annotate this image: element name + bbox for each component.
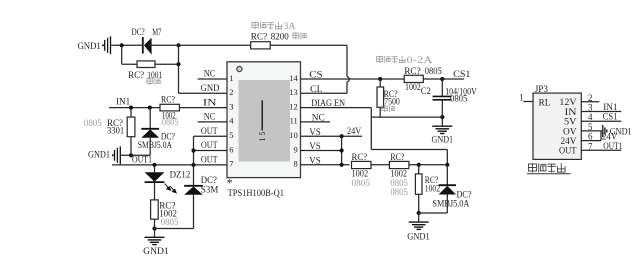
node junction OUT pin6	[191, 148, 195, 152]
label OUT pin7	[201, 156, 218, 166]
svg-text:GND1: GND1	[143, 247, 169, 257]
label RC? (R3301)	[107, 119, 123, 129]
diode DC? S3M (freewheel)	[184, 186, 203, 195]
wire OUT1 rail	[112, 164, 227, 166]
wire IN1 to R1002	[109, 107, 160, 109]
JP3 pin 2 stub	[581, 101, 599, 103]
wire DIAG EN drop to 24V row	[446, 150, 448, 165]
svg-text:0-2A: 0-2A	[407, 56, 433, 66]
wire vertical x178 to IC GND pin	[178, 45, 180, 93]
diode DZ12 zener LED	[145, 172, 165, 182]
svg-text:12: 12	[289, 101, 298, 111]
label 1002 (IN series)	[162, 111, 176, 121]
label RC? (row b)	[390, 153, 404, 163]
label RC? 8200 柱状	[251, 32, 307, 42]
node junction OUT1/S3M	[191, 163, 195, 167]
resistor vertical lead bottom	[418, 194, 420, 213]
node junction IN1/SMBJ	[148, 106, 152, 110]
label 0805 (row b)	[390, 179, 408, 189]
wire OUT pins vertical	[193, 136, 195, 186]
label DC? (SMBJ input)	[161, 133, 175, 143]
resistor RC? 3301 lead bottom	[130, 137, 132, 156]
JP3 pin 5 stub	[581, 130, 602, 132]
diode S3M lead bottom	[193, 195, 195, 229]
net label 24V	[347, 127, 361, 137]
JP3 pin name labels	[559, 98, 577, 157]
wire JP3 pin5-6 tie	[600, 131, 602, 141]
wire DIAG EN vertical	[370, 108, 372, 150]
wire top rail from GND1 to M7	[111, 44, 143, 46]
svg-text:*: *	[227, 178, 233, 190]
wire gnd row2	[419, 212, 448, 214]
node junction gnd row2	[417, 211, 421, 215]
node junction IN1/R3301	[129, 106, 133, 110]
svg-text:4: 4	[229, 116, 234, 126]
svg-text:DC?: DC?	[132, 28, 145, 38]
svg-text:S3M: S3M	[201, 185, 219, 195]
label CL pin13	[310, 85, 323, 95]
IC pad pin 15 line	[261, 100, 263, 130]
node junction top rail x178	[176, 43, 180, 47]
svg-text:3: 3	[229, 101, 233, 111]
label DZ12	[170, 171, 191, 181]
svg-text:24V: 24V	[602, 133, 618, 143]
diode DC? SMBJ5.0A (24V TVS)	[439, 185, 456, 194]
label 限制电流3A	[252, 22, 296, 33]
node junction DZ12-R/S3M bottom	[152, 226, 156, 230]
label 1002 (row a)	[352, 170, 369, 180]
JP3 pin 1 stub	[523, 101, 533, 103]
connector JP3 body	[533, 93, 581, 159]
label JP3	[535, 85, 549, 95]
resistor RC? 7500	[377, 87, 384, 107]
label IN pin3	[203, 98, 217, 108]
svg-text:12V: 12V	[559, 98, 576, 108]
JP3 pin 6 stub	[581, 140, 601, 142]
svg-text:NC: NC	[204, 70, 216, 80]
diode DZ12 lead top	[154, 165, 156, 172]
wire to GND1 bottom left	[154, 229, 156, 238]
label 104/100V	[445, 88, 477, 98]
IC pin numbers 1-7	[229, 73, 234, 169]
net label IN1 (JP3)	[603, 103, 618, 113]
resistor RC? 1002 b (24V row)	[389, 161, 409, 168]
node junction bypass right	[176, 62, 180, 66]
IC pin numbers 14-8	[289, 73, 298, 169]
svg-text:SMBJ5.0A: SMBJ5.0A	[138, 141, 172, 151]
svg-text:9: 9	[294, 144, 298, 154]
svg-text:OUT: OUT	[201, 127, 218, 137]
label VS pin8	[309, 156, 321, 166]
IC star marker	[227, 178, 233, 190]
label 输出模块	[527, 163, 571, 174]
label DC? (SMBJ 24V)	[457, 191, 472, 201]
label SMBJ5.0A (24V)	[432, 199, 469, 209]
label RC? 1001	[128, 71, 162, 81]
svg-text:5: 5	[229, 130, 233, 140]
diode SMBJ lead bottom	[149, 138, 151, 156]
capacitor C2 lead top	[441, 79, 443, 96]
svg-text:GND: GND	[201, 84, 220, 94]
svg-text:RL: RL	[539, 99, 551, 109]
wire VS pin9	[301, 150, 342, 152]
node junction top rail / bypass left	[120, 43, 124, 47]
svg-text:OUT: OUT	[201, 156, 218, 166]
svg-text:TPS1H100B-Q1: TPS1H100B-Q1	[228, 189, 285, 199]
label RC? (IN series)	[161, 96, 175, 106]
JP3 pin numbers 2-7	[588, 93, 593, 152]
net label CS1 (JP3)	[603, 113, 618, 123]
label TPS1H100B-Q1	[228, 189, 285, 199]
node junction VS10	[340, 134, 344, 138]
IC inner pad	[239, 80, 291, 162]
diode SMBJ2 lead bottom	[446, 195, 448, 214]
label 0805 second (row b)	[390, 188, 408, 198]
svg-text:C2: C2	[421, 87, 431, 97]
wire top rail M7 to R8200	[152, 44, 251, 46]
resistor 7500 lead bottom	[379, 107, 381, 117]
label 0805 (C2)	[450, 94, 468, 104]
node junction row/diag/smbj	[445, 163, 449, 167]
ground GND1 (under C2)	[432, 126, 454, 145]
pin 2 GND stub	[179, 92, 228, 94]
resistor RC? 3301 lead top	[130, 108, 132, 118]
wire GND1 to junction	[120, 154, 131, 156]
label 0805 (R3301)	[84, 119, 102, 129]
svg-text:1: 1	[519, 93, 524, 103]
LED arrows	[165, 184, 177, 193]
resistor RC? 1002 a (24V row)	[352, 161, 372, 168]
label OUT pin5	[201, 127, 218, 137]
wire CS pin14 rail	[301, 78, 465, 80]
label S3M	[201, 185, 219, 195]
wire CL pin13	[301, 92, 348, 94]
resistor RC? 8200 (current limit)	[251, 42, 271, 49]
svg-text:IN: IN	[565, 108, 577, 118]
pin 11 NC stub	[301, 121, 331, 123]
label 1002 (vert R)	[425, 184, 440, 194]
svg-text:1002: 1002	[405, 83, 421, 93]
wire GND row y117	[371, 116, 442, 118]
JP3 pin 4 wire	[581, 120, 621, 122]
ground GND1 (bottom left)	[143, 237, 169, 257]
node junction CS/C2	[440, 77, 444, 81]
resistor RC? 1002 vertical lead top	[418, 165, 420, 174]
label SMBJ5.0A (input)	[138, 141, 172, 151]
label RC? (DZ12 R)	[159, 202, 175, 212]
label NC pin11	[312, 114, 325, 124]
node junction row/Rvert	[417, 163, 421, 167]
diode M7 (points left)	[143, 37, 152, 55]
svg-text:IN: IN	[203, 98, 217, 108]
resistor lead bottom to gnd node	[154, 219, 156, 228]
svg-text:SMBJ5.0A: SMBJ5.0A	[432, 199, 469, 209]
net label OUT1	[132, 155, 152, 165]
svg-text:3A: 3A	[284, 22, 296, 32]
svg-text:0805: 0805	[162, 118, 179, 128]
wire S3M bottom row	[155, 228, 194, 230]
pin 4 NC stub	[198, 121, 227, 123]
svg-text:GND1: GND1	[407, 233, 430, 243]
node junction OUT1/DZ12	[152, 163, 156, 167]
svg-text:11: 11	[290, 116, 298, 126]
svg-text:1002: 1002	[425, 184, 440, 194]
wire C2 gnd drop	[441, 117, 443, 126]
diode DC? SMBJ5.0A (input TVS)	[141, 129, 159, 138]
wire top rail R8200 to corner	[270, 44, 347, 46]
svg-text:RC?: RC?	[352, 153, 368, 163]
capacitor C2	[433, 96, 452, 99]
label CS pin14	[309, 71, 322, 81]
label 0805 (DZ12 R)	[161, 218, 179, 228]
svg-text:7: 7	[229, 159, 233, 169]
wire VS pin10	[301, 135, 363, 137]
svg-text:0805: 0805	[352, 179, 371, 189]
svg-text:DZ12: DZ12	[170, 171, 191, 181]
label RC? (vert R)	[425, 176, 438, 186]
node junction GND/R3301/SMBJ	[129, 153, 133, 157]
svg-text:6: 6	[229, 144, 233, 154]
svg-text:OUT1: OUT1	[132, 155, 152, 165]
wire VS vertical	[341, 136, 343, 165]
svg-text:3301: 3301	[107, 127, 125, 137]
label DC? (S3M)	[201, 176, 217, 186]
label RC? (row a)	[352, 153, 368, 163]
wire to GND1 bottom mid	[418, 213, 420, 222]
wire SMBJ bottom to R3301 bottom	[131, 154, 150, 156]
wire hop over CS wire	[347, 77, 349, 82]
label RC? (7500)	[384, 90, 398, 100]
svg-text:0805: 0805	[161, 218, 179, 228]
op-amp U1 TPS1H100B-Q1 body	[227, 62, 301, 178]
svg-text:8: 8	[294, 159, 298, 169]
svg-text:10: 10	[289, 130, 298, 140]
resistor RC? 1002 (IN series)	[160, 104, 179, 111]
svg-text:CS1: CS1	[603, 113, 618, 123]
svg-text:M7: M7	[152, 28, 161, 38]
label 1002 (DZ12 R)	[159, 209, 177, 219]
label 0805 (row a)	[352, 179, 371, 189]
svg-text:0805: 0805	[450, 94, 468, 104]
wire between row resistors	[371, 164, 389, 166]
power port GND1 (top left)	[78, 36, 111, 54]
diode DC? SMBJ5.0A 2 lead top	[446, 165, 448, 185]
JP3 pin 3 wire	[581, 111, 621, 113]
label VS pin9	[309, 142, 321, 152]
svg-text:24V: 24V	[347, 127, 361, 137]
resistor RC? 7500 lead top	[379, 79, 381, 87]
resistor RC? 1002 (vertical)	[415, 174, 422, 194]
node junction CS/R7500	[378, 77, 382, 81]
net label OUT1 (JP3)	[603, 142, 623, 152]
svg-text:RC?: RC?	[161, 96, 175, 106]
svg-text:CL: CL	[310, 85, 323, 95]
wire bypass row left	[122, 63, 179, 65]
svg-text:OUT1: OUT1	[603, 142, 623, 152]
wire bypass left vertical	[121, 45, 123, 64]
wire drop from top rail to hop	[346, 45, 348, 76]
svg-text:0805: 0805	[425, 67, 442, 77]
svg-text:0805: 0805	[390, 188, 408, 198]
label DC? M7	[132, 28, 162, 38]
resistor RC? 3301	[127, 117, 135, 137]
svg-text:RC?: RC?	[390, 153, 404, 163]
net label IN1	[116, 97, 131, 107]
svg-text:GND1: GND1	[78, 42, 102, 52]
svg-text:1: 1	[229, 73, 233, 83]
wire DIAG EN pin12	[301, 107, 372, 109]
label VS pin10	[309, 128, 321, 138]
label GND pin2	[201, 84, 220, 94]
label 0805 (IN series)	[162, 118, 179, 128]
wire row to junctions	[409, 164, 447, 166]
node junction C2/GND row	[440, 115, 444, 119]
svg-text:5V: 5V	[564, 118, 577, 128]
ground GND1 (bottom mid)	[407, 222, 430, 243]
label 1002 (row b)	[390, 170, 407, 180]
svg-text:RC?: RC?	[128, 71, 144, 81]
wire hop bottom to CL	[346, 82, 348, 93]
label 检测电流0-2A	[377, 56, 433, 66]
resistor RC? 1002 (CS series)	[404, 75, 423, 82]
label DIAG EN pin12	[311, 99, 345, 109]
resistor RC? 1002 (DZ12) lead top	[154, 182, 156, 200]
svg-text:OV: OV	[563, 127, 577, 137]
net label CS1	[453, 70, 471, 80]
label RL	[539, 99, 551, 109]
pin 1 NC stub	[198, 78, 227, 80]
svg-text:GND1: GND1	[88, 150, 110, 160]
svg-text:13: 13	[289, 87, 298, 97]
svg-text:NC: NC	[204, 113, 216, 123]
svg-text:IN1: IN1	[603, 103, 618, 113]
label C2	[421, 87, 431, 97]
svg-text:OUT: OUT	[559, 147, 577, 157]
wire VS pin8 row	[301, 164, 350, 166]
svg-text:24V: 24V	[561, 137, 577, 147]
label 1002 (CS series)	[405, 83, 421, 93]
label OUT pin6	[201, 141, 218, 151]
label RC? 0805 (CS series)	[404, 67, 442, 77]
label 7500	[384, 98, 400, 108]
capacitor C2 lead bottom	[441, 100, 443, 117]
node junction VS9	[340, 148, 344, 152]
diode DC? SMBJ5.0A lead top	[149, 108, 151, 129]
wire DIAG EN horizontal	[371, 149, 447, 151]
resistor RC? 1002 (DZ12)	[151, 200, 159, 219]
svg-text:IN1: IN1	[116, 97, 131, 107]
label NC pin1	[204, 70, 216, 80]
pin 6 OUT wire	[194, 150, 228, 152]
power port GND1 (mid left)	[88, 146, 120, 164]
svg-text:RC?: RC?	[251, 32, 268, 42]
svg-text:2: 2	[229, 87, 233, 97]
label 3301	[107, 127, 125, 137]
svg-text:0805: 0805	[84, 119, 102, 129]
svg-text:JP3: JP3	[535, 85, 549, 95]
label 柱状 (RC1001)	[147, 78, 161, 85]
net label 24V (JP3)	[602, 133, 618, 143]
svg-text:CS1: CS1	[453, 70, 471, 80]
IC pin1 marker circle	[237, 66, 242, 71]
wire R1002 to IC pin3	[179, 107, 227, 109]
label NC pin4	[204, 113, 216, 123]
label 柱状 (7500)	[382, 105, 395, 112]
svg-text:GND1: GND1	[432, 135, 454, 145]
label 1 (JP3)	[519, 93, 524, 103]
svg-text:OUT: OUT	[201, 141, 218, 151]
resistor RC? 1001 (bypass)	[137, 61, 155, 68]
JP3 pin 7 wire	[581, 149, 621, 151]
pin 5 OUT wire	[194, 135, 228, 137]
label pin 15 (rotated)	[258, 132, 267, 142]
power port GND1 (JP3)	[603, 125, 632, 138]
node junction VS8 row	[340, 163, 344, 167]
svg-text:14: 14	[289, 73, 298, 83]
svg-text:8200: 8200	[271, 32, 289, 42]
